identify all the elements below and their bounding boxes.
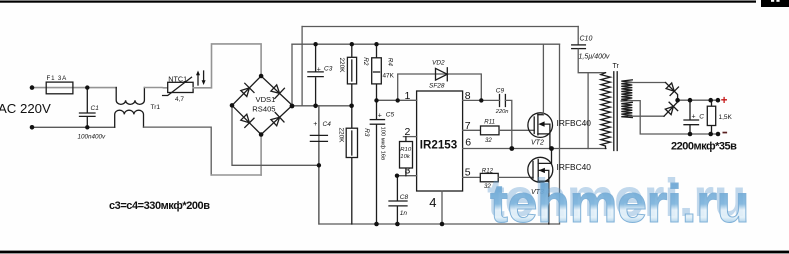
svg-text:NTC1: NTC1 xyxy=(168,74,187,83)
svg-text:2200мкф*35в: 2200мкф*35в xyxy=(671,141,737,153)
svg-text:IRFBC40: IRFBC40 xyxy=(557,118,592,128)
svg-text:R2: R2 xyxy=(362,57,369,66)
svg-text:C4: C4 xyxy=(323,121,332,128)
svg-text:+: + xyxy=(721,95,728,107)
svg-text:220n: 220n xyxy=(495,109,509,115)
svg-text:R11: R11 xyxy=(484,119,495,126)
svg-text:F1 3A: F1 3A xyxy=(47,75,68,82)
svg-text:+: + xyxy=(317,66,321,73)
svg-text:+: + xyxy=(692,114,696,121)
svg-text:C1: C1 xyxy=(91,105,100,112)
svg-text:1n: 1n xyxy=(400,210,408,217)
svg-text:1,5µ/400v: 1,5µ/400v xyxy=(579,54,610,61)
svg-text:6: 6 xyxy=(465,137,471,149)
svg-text:220K: 220K xyxy=(338,58,345,74)
svg-text:AC 220V: AC 220V xyxy=(0,101,51,116)
svg-text:IR2153: IR2153 xyxy=(420,139,458,152)
svg-text:tehmeri.ru: tehmeri.ru xyxy=(490,174,749,234)
svg-text:4,7: 4,7 xyxy=(175,96,184,103)
svg-text:C10: C10 xyxy=(580,36,593,43)
svg-text:VT2: VT2 xyxy=(531,140,544,147)
svg-text:5: 5 xyxy=(465,166,471,178)
svg-text:10k: 10k xyxy=(400,154,411,160)
svg-text:VD2: VD2 xyxy=(432,60,445,67)
svg-text:Tr1: Tr1 xyxy=(151,104,161,111)
svg-text:+: + xyxy=(313,121,317,128)
svg-text:C3: C3 xyxy=(324,66,333,73)
svg-text:RS405: RS405 xyxy=(252,104,275,113)
svg-text:C9: C9 xyxy=(496,88,505,95)
svg-text:7: 7 xyxy=(465,120,471,132)
svg-text:C: C xyxy=(699,114,704,121)
svg-text:220K: 220K xyxy=(338,128,345,144)
svg-text:100 мкф 16в: 100 мкф 16в xyxy=(380,127,386,161)
svg-text:4: 4 xyxy=(429,195,436,210)
svg-text:1,5K: 1,5K xyxy=(719,114,733,121)
svg-text:8: 8 xyxy=(465,90,471,102)
svg-text:1: 1 xyxy=(405,90,411,102)
svg-text:VDS1: VDS1 xyxy=(256,95,276,104)
svg-text:R4: R4 xyxy=(387,58,394,67)
svg-text:R3: R3 xyxy=(363,128,370,137)
svg-text:+: + xyxy=(378,113,382,120)
svg-text:C8: C8 xyxy=(400,194,409,201)
svg-text:32: 32 xyxy=(485,137,492,144)
svg-text:100n400v: 100n400v xyxy=(78,133,107,140)
svg-text:Tr: Tr xyxy=(613,63,620,70)
svg-text:с3=с4=330мкф*200в: с3=с4=330мкф*200в xyxy=(109,200,210,212)
svg-text:C5: C5 xyxy=(386,112,395,119)
svg-text:R10: R10 xyxy=(400,147,412,153)
svg-text:47K: 47K xyxy=(383,73,395,80)
svg-text:SF28: SF28 xyxy=(429,83,445,90)
